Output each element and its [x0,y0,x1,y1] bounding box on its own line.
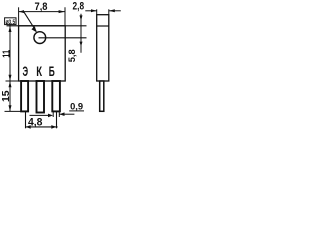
dimension 7,8 lines [19,7,65,26]
0,9 inner dimension segment [30,114,49,116]
leader arrowhead [31,26,36,32]
svg-text:11: 11 [2,49,13,57]
arrowhead pointing right at pin3 left edge [48,114,53,118]
mounting hole [34,32,46,44]
dimension 15 line [9,81,11,111]
arrowhead 0,9 pointing left at pin3 right edge [60,112,65,116]
svg-text:5,8: 5,8 [67,49,78,62]
svg-text:4,8: 4,8 [28,116,43,128]
dimension 5,8 line [80,14,82,53]
dimension 11 line [9,24,11,81]
svg-text:7,8: 7,8 [35,1,48,13]
dimension 7,8 arrowheads [19,10,65,13]
hole diameter leader line [24,12,37,32]
pin 3 (base) [52,81,60,111]
transistor body front view [19,26,66,81]
svg-text:2,8: 2,8 [73,1,85,13]
svg-text:К: К [36,63,42,79]
side view tab divider line [97,25,109,27]
svg-text:0,9: 0,9 [70,102,83,112]
svg-text:Э: Э [23,63,29,79]
0,9 tick at pin3 left edge [52,112,54,117]
pin 1 (emitter) [21,81,28,111]
pin 2 (collector) [37,81,45,113]
svg-text:Б: Б [49,63,55,79]
pin end extension tick [5,110,21,112]
body bottom extension tick [6,80,19,82]
dimension 4,8 line [26,126,58,128]
dimension 15 arrowheads [9,81,12,111]
0,9 tick at pin3 right edge [58,112,60,117]
side view pin [100,81,104,111]
4,8 arrowhead left [26,125,31,129]
4,8 arrowhead right [51,125,56,129]
dimension 4,8 extension line pin1 center [25,112,27,129]
side view body [97,15,109,81]
hole diameter label box [5,18,16,25]
dimension 2,8 arrowheads [91,9,115,12]
body top extension line [7,25,87,27]
0,9 outer segment [59,113,74,115]
dimension 11 arrowheads [9,26,12,81]
svg-text:15: 15 [1,90,12,102]
dimension 4,8 extension line pin3 center [56,112,58,128]
dimension 2,8 extension lines [85,9,121,14]
hole centerline extension [39,37,87,39]
dimension 5,8 arrowheads [80,15,83,46]
